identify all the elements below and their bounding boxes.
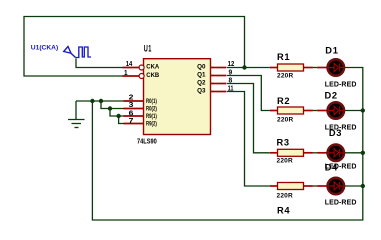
svg-text:D3: D3: [329, 128, 342, 138]
svg-text:CKB: CKB: [146, 72, 159, 79]
svg-text:6: 6: [129, 110, 134, 117]
svg-text:Q3: Q3: [197, 88, 206, 95]
junction: pin 6 / pin 7 node: [116, 114, 120, 118]
svg-text:12: 12: [228, 61, 235, 68]
svg-text:Q1: Q1: [197, 71, 206, 78]
svg-text:1: 1: [124, 70, 128, 77]
svg-text:8: 8: [229, 77, 233, 84]
svg-text:7: 7: [129, 118, 134, 125]
pin Q2 8: [211, 83, 227, 85]
pin R9(1) 6: [124, 115, 144, 117]
junction: D2 cathode on bus: [361, 108, 365, 112]
LED D4: [317, 162, 356, 206]
LED D1: [317, 45, 356, 88]
wire: pin6 riser: [110, 109, 124, 117]
wire: pin3 riser: [101, 101, 124, 109]
wire: ground return vertical + bottom rail + right bus: [92, 68, 362, 221]
svg-text:R3: R3: [277, 137, 290, 147]
wire: Q0 to R1: [227, 67, 270, 69]
wire: Q2 to R3: [227, 84, 270, 153]
junction: pin 2 / pin 3 node: [99, 99, 103, 103]
svg-text:2: 2: [129, 95, 134, 102]
svg-text:220R: 220R: [277, 116, 293, 123]
IC U1 74LS90 body: [144, 59, 211, 135]
pin Q1 9: [211, 75, 227, 77]
svg-text:U1: U1: [144, 44, 152, 54]
wire: D3 to bus: [345, 152, 363, 154]
wire: Q3 to R4: [227, 92, 270, 187]
svg-text:Q0: Q0: [197, 63, 206, 70]
svg-text:R9(1): R9(1): [146, 113, 157, 120]
wire: CKB feedback loop (Q0 to CKB): [24, 17, 245, 77]
pin CKA 14: [123, 67, 139, 69]
svg-text:LED-RED: LED-RED: [325, 199, 357, 206]
pin R0(1) 2: [124, 100, 144, 102]
svg-text:14: 14: [126, 61, 133, 68]
junction: Q0 / CKB loop node: [242, 65, 246, 69]
pin R0(2) 3: [124, 108, 144, 110]
resistor R4: [270, 183, 317, 216]
svg-text:D2: D2: [325, 91, 338, 101]
clock generator U1(CKA): [64, 47, 91, 58]
svg-text:R9(2): R9(2): [146, 120, 157, 127]
wire: D2 to bus: [345, 110, 363, 112]
junction: D3 cathode on bus: [361, 151, 365, 155]
svg-text:LED-RED: LED-RED: [325, 81, 357, 88]
wire: clock to CKA pin 14: [76, 59, 123, 68]
pin Q3 11: [211, 91, 227, 93]
junction: D4 cathode on bus: [361, 184, 365, 188]
wire: D4 to bus: [345, 185, 363, 187]
svg-text:220R: 220R: [277, 72, 293, 79]
resistor R2: [270, 96, 317, 123]
svg-text:D4: D4: [325, 162, 338, 172]
svg-text:74LS90: 74LS90: [137, 137, 157, 146]
wire: ground net pin2: [76, 100, 124, 102]
svg-text:Q2: Q2: [197, 80, 206, 87]
svg-text:D1: D1: [325, 45, 338, 55]
junction: pin 3 / pin 6 node: [108, 106, 112, 110]
pin Q0 12: [211, 67, 227, 69]
LED D2: [317, 91, 356, 132]
LED D3: [317, 128, 356, 171]
svg-text:220R: 220R: [277, 192, 293, 199]
svg-text:9: 9: [229, 69, 233, 76]
junction: ground net / return rail: [90, 99, 94, 103]
svg-text:R0(1): R0(1): [146, 98, 157, 105]
svg-text:R2: R2: [277, 96, 290, 106]
svg-text:R1: R1: [277, 52, 290, 62]
svg-text:R4: R4: [277, 206, 290, 216]
svg-text:3: 3: [129, 102, 134, 109]
wire: pin7 riser: [119, 116, 124, 124]
svg-text:CKA: CKA: [146, 64, 159, 71]
svg-text:R0(2): R0(2): [146, 105, 157, 112]
wire: Q1 to R2: [227, 76, 270, 111]
resistor R3: [270, 137, 317, 164]
resistor R1: [270, 52, 317, 79]
svg-text:220R: 220R: [277, 158, 293, 165]
svg-text:11: 11: [228, 86, 234, 93]
svg-text:U1(CKA): U1(CKA): [31, 44, 58, 51]
pin R9(2) 7: [124, 123, 144, 125]
pin CKB 1: [123, 75, 140, 77]
ground: [68, 101, 85, 128]
